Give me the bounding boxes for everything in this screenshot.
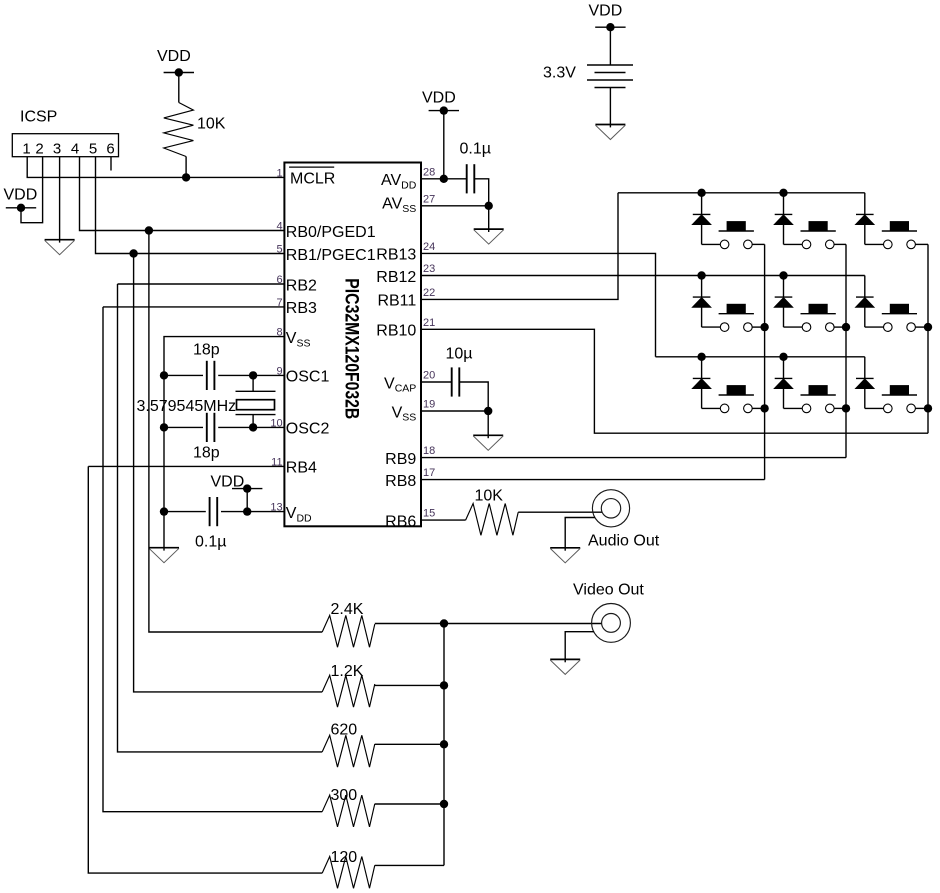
connector J3 Audio Out RCA jack — [588, 490, 660, 550]
svg-text:VDD: VDD — [211, 473, 245, 490]
resistor R5 300 — [322, 787, 375, 827]
wire crystal to OSC2 — [252, 415, 254, 428]
diode D7 — [692, 357, 711, 409]
U1 pin 1 MCLR label — [276, 167, 335, 188]
power symbol VDD (MCLR pull-up) text — [157, 48, 191, 65]
ground (battery) — [595, 125, 625, 140]
svg-text:RB6: RB6 — [385, 513, 416, 530]
svg-text:4: 4 — [71, 140, 79, 157]
resistor R4 620 — [322, 722, 375, 768]
ground (ICSP pin3) — [45, 240, 75, 255]
svg-text:3: 3 — [53, 140, 61, 157]
ground (audio) — [550, 548, 580, 563]
power symbol VDD ICSP — [6, 204, 36, 212]
svg-text:20: 20 — [423, 370, 435, 382]
svg-text:RB0/PGED1: RB0/PGED1 — [286, 224, 376, 241]
junction OSC1 left — [160, 371, 168, 379]
wire ICSP pin 6 stub — [110, 157, 112, 171]
svg-text:17: 17 — [423, 467, 435, 479]
svg-text:24: 24 — [423, 241, 435, 253]
power symbol VDD (battery) text — [589, 3, 623, 20]
wire ICSP pin 4 to RB0 — [80, 157, 285, 231]
wire AVDD pin 28 — [421, 178, 467, 180]
wire button row 3 — [656, 356, 865, 358]
wire battery to ground — [609, 88, 611, 125]
wire matrix column 3 — [927, 244, 929, 433]
svg-text:18: 18 — [423, 445, 435, 457]
pushbutton S9 — [865, 385, 928, 413]
wire OSC1 to crystal — [252, 375, 254, 391]
wire RB10 pin 21 to column 3 — [421, 329, 928, 433]
junction column 1 row 3 — [760, 404, 768, 412]
wire OSC1 pin 9 left — [164, 374, 203, 376]
wire C2 to VSS pin 19 — [459, 382, 488, 411]
svg-text:19: 19 — [423, 399, 435, 411]
op-amp U1 PIC32MX120F032B body — [284, 163, 421, 527]
wire OSC2 pin 10 left — [164, 426, 203, 428]
resistor R1 10K (MCLR pull-up) — [164, 103, 226, 157]
wire ladder column 1.2K — [134, 254, 323, 692]
wire ICSP pin 5 to RB1 — [96, 157, 285, 254]
wire audio jack shell to ground — [565, 518, 595, 548]
capacitor C5 0.1u (VDD) — [210, 497, 218, 526]
diode D4 — [692, 276, 711, 328]
junction row 2 diode 1 — [697, 271, 705, 279]
wire RB6 pin 15 — [421, 519, 466, 521]
ICSP pin numbers 1-6 — [22, 140, 114, 157]
svg-text:1.2K: 1.2K — [331, 663, 364, 680]
ground (AVSS) — [474, 229, 504, 244]
wire OSC1 pin 9 right — [218, 374, 284, 376]
svg-text:Video Out: Video Out — [573, 581, 644, 598]
pushbutton S2 — [784, 221, 847, 249]
resistor R2 2.4K — [322, 601, 375, 647]
junction column 2 row 3 — [842, 404, 850, 412]
wire summing node to video jack — [444, 623, 602, 625]
wire R5 300 to summing node — [375, 803, 444, 805]
svg-text:15: 15 — [423, 508, 435, 520]
svg-text:27: 27 — [423, 193, 435, 205]
junction pin13 cap left — [160, 507, 168, 515]
capacitor C1 0.1u (AVDD) — [467, 164, 475, 193]
svg-text:MCLR: MCLR — [290, 171, 335, 188]
svg-text:23: 23 — [423, 263, 435, 275]
svg-text:1: 1 — [22, 140, 30, 157]
wire VSS pin 19 — [421, 410, 488, 412]
wire VCAP pin 20 — [421, 381, 452, 383]
wire ICSP pin 3 to ground — [59, 157, 61, 240]
junction summing 1.2K — [440, 681, 448, 689]
resistor R7 10K (audio) — [466, 488, 519, 536]
svg-text:0.1µ: 0.1µ — [460, 141, 491, 158]
svg-text:RB11: RB11 — [377, 293, 416, 310]
wire RB3 pin 7 — [103, 306, 284, 308]
battery BT1 3.3V — [543, 65, 633, 88]
svg-text:3.579545MHz: 3.579545MHz — [137, 398, 237, 415]
junction AVSS — [485, 202, 493, 210]
junction summing 300 — [440, 800, 448, 808]
ground (video) — [550, 659, 580, 674]
wire RB8 pin 17 to column 1 — [421, 479, 765, 481]
diode D1 — [692, 193, 711, 245]
junction RB0/ICSP4 ladder tap — [145, 226, 153, 234]
svg-text:6: 6 — [106, 140, 114, 157]
junction OSC2 left — [160, 423, 168, 431]
wire AVSS pin 27 — [421, 205, 489, 207]
wire RB11 pin 22 to row 1 — [421, 193, 618, 300]
pushbutton S7 — [702, 385, 765, 413]
wire ICSP pin 1 to MCLR — [27, 157, 284, 178]
svg-text:RB13: RB13 — [376, 247, 416, 264]
svg-text:VDD: VDD — [422, 89, 456, 106]
wire ladder column 2.4K — [149, 231, 322, 633]
connector J2 Video Out RCA jack — [573, 581, 644, 642]
svg-text:22: 22 — [423, 287, 435, 299]
power symbol VDD (pin13) text — [211, 473, 245, 490]
ground (VSS rail) — [149, 548, 179, 563]
junction column 3 row 3 — [924, 404, 932, 412]
C4 value label — [193, 445, 220, 462]
junction RB1/ICSP5 ladder tap — [129, 249, 137, 257]
svg-text:10K: 10K — [197, 116, 226, 133]
resistor R6 120 — [322, 849, 375, 888]
diode D3 — [855, 193, 874, 245]
wire R1 to MCLR wire — [185, 157, 187, 178]
junction VSS 19 — [484, 407, 492, 415]
pushbutton S1 — [702, 221, 765, 249]
pushbutton S3 — [865, 221, 928, 249]
wire RB12 pin 23 / button row 2 — [421, 275, 865, 277]
svg-text:PIC32MX120F032B: PIC32MX120F032B — [340, 278, 362, 419]
power symbol VDD (AVDD) text — [422, 89, 456, 106]
svg-text:10µ: 10µ — [446, 345, 473, 362]
power symbol VDD pin13 — [232, 484, 262, 492]
wire video summing column — [443, 624, 445, 866]
svg-text:300: 300 — [331, 787, 358, 804]
svg-text:18p: 18p — [193, 445, 220, 462]
junction OSC2 crystal — [249, 423, 257, 431]
svg-text:RB3: RB3 — [286, 300, 317, 317]
wire VDD to battery — [609, 27, 611, 65]
svg-text:10K: 10K — [475, 488, 504, 505]
wire matrix column 1 — [764, 244, 766, 479]
capacitor C2 10u (VCAP) — [452, 367, 460, 396]
U1 left pin numbers — [270, 221, 282, 514]
svg-text:3.3V: 3.3V — [543, 65, 576, 82]
wire ladder column 620 — [118, 284, 323, 752]
wire R7 to audio jack — [518, 511, 602, 513]
svg-text:Audio Out: Audio Out — [588, 533, 660, 550]
svg-text:5: 5 — [276, 244, 282, 256]
junction column 1 row 2 — [760, 323, 768, 331]
junction OSC1 crystal — [249, 371, 257, 379]
diode D6 — [855, 276, 874, 328]
svg-text:RB1/PGEC1: RB1/PGEC1 — [286, 247, 376, 264]
wire RB4 pin 11 — [88, 465, 284, 467]
svg-text:RB4: RB4 — [286, 460, 317, 477]
junction pin13 VDD — [243, 507, 251, 515]
wire VDD down to AVDD pin 28 — [443, 111, 445, 179]
svg-text:28: 28 — [423, 166, 435, 178]
wire VDD to R1 — [178, 73, 180, 103]
junction row 2 diode 2 — [779, 271, 787, 279]
C3 value label — [193, 342, 220, 359]
svg-text:OSC2: OSC2 — [286, 421, 330, 438]
svg-text:ICSP: ICSP — [20, 109, 57, 126]
wire RB2 pin 6 — [118, 283, 285, 285]
svg-text:2: 2 — [35, 140, 43, 157]
svg-text:21: 21 — [423, 317, 435, 329]
svg-text:4: 4 — [276, 221, 282, 233]
wire R3 1.2K to summing node — [375, 684, 444, 686]
wire ladder column 120 — [88, 466, 322, 873]
wire VSS 19 to ground — [487, 411, 489, 435]
wire ladder column 300 — [103, 307, 322, 812]
wire VDD pin 13 right — [221, 511, 284, 513]
wire R4 620 to summing node — [375, 743, 444, 745]
wire C1 to AVSS — [474, 179, 488, 206]
junction summing 620 — [440, 740, 448, 748]
junction row 1 diode 2 — [779, 189, 787, 197]
connector J1 ICSP header — [12, 109, 118, 157]
C5 value label — [195, 534, 226, 551]
diode D9 — [855, 357, 874, 409]
pushbutton S4 — [702, 304, 765, 332]
U1 right pin labels — [376, 172, 416, 530]
wire RB13 pin 24 to row 3 — [421, 253, 656, 356]
svg-text:VDD: VDD — [4, 187, 38, 204]
wire RB9 pin 18 to column 2 — [421, 457, 846, 459]
resistor R3 1.2K — [322, 663, 375, 707]
wire VSS pin 8 — [164, 337, 284, 548]
junction column 3 row 2 — [924, 323, 932, 331]
C1 value label — [460, 141, 491, 158]
svg-text:5: 5 — [89, 140, 97, 157]
ground (VCAP) — [473, 435, 503, 450]
svg-text:RB8: RB8 — [385, 473, 416, 490]
diode D2 — [774, 193, 793, 245]
pushbutton S6 — [865, 304, 928, 332]
junction column 2 row 2 — [842, 323, 850, 331]
pushbutton S8 — [784, 385, 847, 413]
wire button row 1 — [618, 192, 865, 194]
power symbol VDD battery — [595, 23, 625, 31]
svg-text:VDD: VDD — [157, 48, 191, 65]
junction summing 2.4K — [440, 619, 448, 627]
U1 right pin numbers — [423, 166, 435, 519]
junction row 1 diode 1 — [697, 189, 705, 197]
junction row 3 diode 1 — [697, 353, 705, 361]
diode D5 — [774, 276, 793, 328]
svg-text:RB12: RB12 — [376, 269, 416, 286]
svg-text:1: 1 — [276, 167, 282, 179]
svg-text:RB10: RB10 — [376, 323, 416, 340]
diode D8 — [774, 357, 793, 409]
svg-text:18p: 18p — [193, 342, 220, 359]
wire VDD to pin 13 — [246, 489, 248, 512]
wire OSC2 pin 10 right — [218, 426, 284, 428]
C2 value label — [446, 345, 473, 362]
power symbol VDD MCLR pull-up — [164, 68, 194, 76]
junction AVDD — [440, 175, 448, 183]
junction MCLR/R1 — [182, 173, 190, 181]
wire matrix column 2 — [845, 244, 847, 457]
power symbol VDD AVDD — [429, 106, 459, 114]
svg-text:2.4K: 2.4K — [331, 601, 364, 618]
capacitor C3 18p (OSC1) — [207, 361, 215, 390]
wire VDD pin 13 left — [164, 511, 206, 513]
svg-text:0.1µ: 0.1µ — [195, 534, 226, 551]
capacitor C4 18p (OSC2) — [207, 413, 215, 442]
svg-text:RB2: RB2 — [286, 277, 317, 294]
svg-text:VDD: VDD — [589, 3, 623, 20]
power symbol VDD (ICSP) text — [4, 187, 38, 204]
svg-text:RB9: RB9 — [385, 451, 416, 468]
wire R2 2.4K to summing node — [375, 623, 444, 625]
wire R6 120 to summing node — [375, 864, 444, 866]
wire AVSS to ground — [488, 206, 490, 229]
wire VDD to ICSP pin 2 — [21, 157, 43, 223]
U1 left pin labels — [286, 224, 376, 525]
svg-text:620: 620 — [331, 722, 358, 739]
junction row 3 diode 2 — [779, 353, 787, 361]
svg-text:120: 120 — [331, 849, 358, 866]
svg-text:OSC1: OSC1 — [286, 369, 330, 386]
crystal Y1 3.579545MHz — [137, 391, 276, 415]
wire video jack shell to ground — [565, 632, 594, 660]
pushbutton S5 — [784, 304, 847, 332]
